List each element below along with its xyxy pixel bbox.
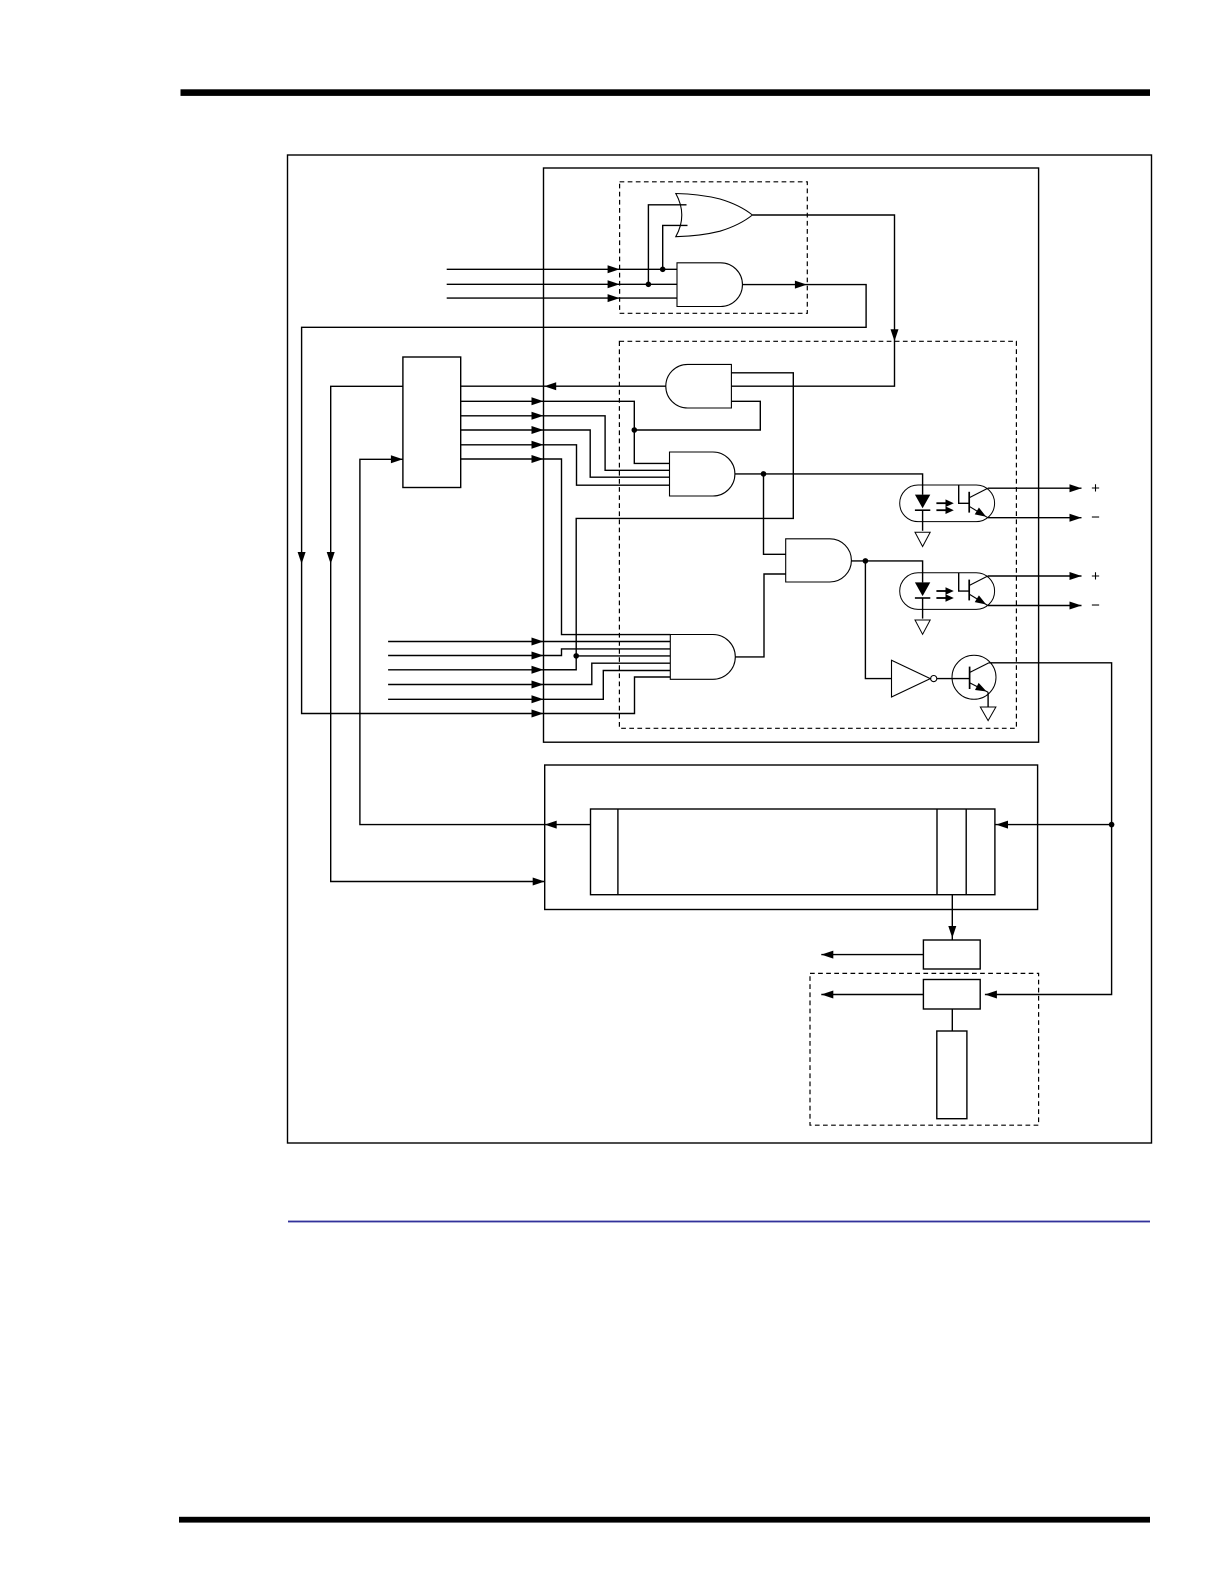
- OR gate G1: [676, 194, 753, 237]
- wire: OR G1 output to G3 input 2: [731, 215, 894, 386]
- AND gate G5: [786, 539, 852, 582]
- divider box B2: [923, 980, 980, 1010]
- wire: B2 to crystal X1: [951, 1009, 953, 1031]
- dashed box D3 (oscillator): [810, 973, 1039, 1125]
- optocoupler U5 LED: [915, 582, 930, 596]
- arrowhead: U4 + output: [1070, 484, 1082, 492]
- wire: bus row b2 to G6 input 3: [388, 649, 670, 656]
- shift register long rectangle: [591, 809, 995, 895]
- ground (U5 cathode): [915, 620, 930, 634]
- wire: U2 left link to lower rail: [331, 386, 545, 881]
- optocoupler U5 base lead: [959, 573, 970, 591]
- arrowhead: B1 output: [821, 951, 833, 959]
- wire: inverter U3 to transistor Q1 base: [937, 678, 970, 680]
- arrowhead: into U2: [391, 455, 403, 463]
- wire: U2 output o2: [461, 416, 670, 471]
- arrowhead: U5 + output: [1070, 572, 1082, 580]
- shift register right cell divider 2: [965, 809, 967, 895]
- optocoupler U5 light arrow 1: [936, 590, 946, 592]
- wire: o1 branch to G3 input 3: [634, 401, 760, 430]
- arrowhead: o4: [532, 441, 544, 449]
- junction: OR tap 1: [646, 282, 652, 288]
- arrowhead: B2 output: [821, 991, 833, 999]
- arrowhead: down left rail B: [327, 552, 335, 564]
- arrowhead: down left rail A: [298, 552, 306, 564]
- optocoupler U4 emitter lead: [969, 506, 988, 517]
- outer block-diagram border: [288, 155, 1152, 1143]
- AND gate G4: [670, 452, 735, 496]
- wire: bus row b1 to G6 input 2: [388, 641, 670, 643]
- optocoupler U5 collector lead: [969, 576, 988, 586]
- wire: Q1 collector to clock rail: [985, 663, 1112, 995]
- wire: G4 output branch to G5 input 1: [764, 474, 786, 554]
- wire: U2 output o1: [461, 401, 670, 463]
- arrowhead: U5 - output: [1070, 602, 1082, 610]
- arrowhead: o5: [532, 455, 544, 463]
- arrowhead: o2: [532, 412, 544, 420]
- arrowhead: feedback exits bottom box: [545, 821, 557, 829]
- wire: divider B2 output left: [821, 994, 923, 996]
- wire: tap row2 to OR G1 input 1: [648, 205, 686, 284]
- arrowhead: o3: [532, 426, 544, 434]
- wire: U2 output o5 to G6 input 1: [461, 459, 671, 635]
- arrowhead: o1: [532, 397, 544, 405]
- wire: input bus row 1 into D1: [447, 268, 677, 270]
- svg-text:+: +: [1091, 480, 1100, 497]
- wire: G6 output to G5 input 2: [735, 574, 785, 657]
- transistor Q1 base bar: [969, 667, 971, 689]
- arrowhead: clock into shift register: [996, 821, 1008, 829]
- wire: G4 output to opto U4 anode: [735, 474, 923, 495]
- wire: clock rail branch to shift register: [995, 824, 1112, 826]
- AND gate G2: [677, 263, 742, 307]
- optocoupler U5 emitter lead: [969, 594, 988, 605]
- arrowhead: U4 - output: [1070, 514, 1082, 522]
- optocoupler U4 package: [900, 485, 995, 522]
- junction: G4 output branch: [761, 471, 767, 477]
- AND gate G3 (mirrored, output left): [666, 364, 732, 408]
- arrowhead: b3: [532, 666, 544, 674]
- bottom rule: [179, 1517, 1150, 1523]
- arrowhead: into bottom box: [533, 878, 545, 886]
- optocoupler U5 LED cathode bar: [915, 597, 930, 599]
- wire: shift register to latch B1: [951, 895, 953, 940]
- latch box B1: [923, 940, 980, 969]
- decoder block U2: [403, 357, 461, 488]
- inverter U3: [892, 660, 931, 697]
- arrowhead: shift register down into B1: [948, 926, 956, 938]
- wire: Q1 emitter to ground: [987, 692, 989, 707]
- crystal resonator X1: [937, 1031, 967, 1119]
- wire: U5 cathode to ground: [922, 598, 924, 619]
- wire: shift register feedback to U2 input: [360, 459, 591, 824]
- shift register left cell divider: [617, 809, 619, 895]
- arrowhead: b4: [532, 681, 544, 689]
- arrowhead: OR output down into D2: [891, 329, 899, 341]
- wire: G5 output branch to inverter U3: [865, 561, 891, 679]
- arrowhead: G3 output left: [544, 382, 556, 390]
- junction: G6 input 4 branch: [573, 653, 579, 659]
- wire: U2 output o4: [461, 445, 670, 485]
- dashed box D2 (output logic): [619, 341, 1016, 728]
- arrowhead: row2 into D1: [608, 280, 620, 288]
- wire: bus row b4 to G6 input 5: [388, 663, 670, 684]
- wire: tap row1 to OR G1 input 2: [663, 225, 688, 269]
- optocoupler U5 phototransistor base bar: [968, 580, 970, 601]
- optocoupler U4 light arrow 1: [936, 502, 946, 504]
- junction: G5 output branch: [863, 558, 869, 564]
- svg-text:−: −: [1091, 509, 1100, 526]
- optocoupler U4 LED: [915, 495, 930, 509]
- wire: input bus row 2 into D1: [447, 283, 677, 285]
- optocoupler U4 collector lead: [969, 488, 988, 498]
- arrowhead: G2 output: [795, 281, 807, 289]
- optocoupler U4 base lead: [959, 485, 970, 503]
- dashed box D1 (gating logic): [620, 182, 808, 313]
- arrowhead: clock into B2: [985, 991, 997, 999]
- junction: clock rail branch: [1109, 822, 1115, 828]
- arrowhead: b6: [532, 710, 544, 718]
- wire: G3 output to decoder U2: [461, 385, 666, 387]
- wire: G3 input 1 net down to G6 input 4: [544, 373, 794, 670]
- ground (Q1 emitter): [980, 707, 996, 721]
- wire: latch B1 output left: [821, 954, 923, 956]
- svg-text:+: +: [1091, 568, 1100, 585]
- transistor Q1 collector lead: [970, 663, 989, 673]
- bottom shift-register box: [545, 765, 1038, 910]
- wire: input bus row 3 into D1: [447, 297, 677, 299]
- top rule: [181, 89, 1151, 96]
- wire: U5 collector output +: [988, 575, 1082, 577]
- wire: bus row b5 to G6 input 6: [388, 671, 670, 700]
- optocoupler U5 package: [900, 573, 995, 610]
- wire: U4 emitter output -: [988, 517, 1082, 519]
- svg-text:−: −: [1091, 597, 1100, 614]
- junction: o1 branch: [632, 427, 638, 433]
- optocoupler U5 light arrow 2: [936, 597, 946, 599]
- wire: U4 collector output +: [988, 487, 1082, 489]
- optocoupler U4 LED cathode bar: [915, 509, 930, 511]
- ground (U4 cathode): [915, 532, 930, 546]
- arrowhead: row1 into D1: [608, 265, 620, 273]
- inverter U3 bubble: [931, 676, 937, 682]
- footnote rule (blue): [288, 1221, 1150, 1223]
- wire: G5 output to opto U5 anode: [851, 561, 922, 583]
- arrowhead: b2: [532, 652, 544, 660]
- junction: OR tap 2: [660, 267, 666, 273]
- wire: U2 output o3: [461, 430, 670, 477]
- transistor Q1 emitter lead: [970, 683, 989, 693]
- optocoupler U4 phototransistor base bar: [968, 492, 970, 513]
- AND gate G6: [670, 635, 735, 680]
- wire: AND G2 output feedback to left rail: [302, 285, 867, 714]
- wire: U5 emitter output -: [988, 605, 1082, 607]
- shift register right cell divider 1: [936, 809, 938, 895]
- inner logic box: [544, 168, 1039, 742]
- wire: bus row b3: [388, 669, 576, 671]
- arrowhead: b1: [532, 638, 544, 646]
- optocoupler U4 light arrow 2: [936, 509, 946, 511]
- wire: U4 cathode to ground: [922, 510, 924, 531]
- transistor Q1: [952, 655, 996, 699]
- arrowhead: row3 into D1: [608, 294, 620, 302]
- arrowhead: b5: [532, 695, 544, 703]
- wire: branch to G6 input 4: [576, 655, 670, 657]
